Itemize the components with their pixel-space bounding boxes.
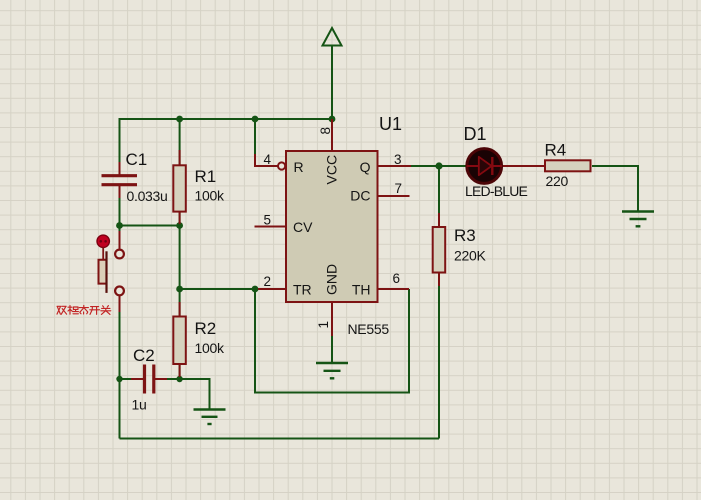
- svg-text:R1: R1: [195, 167, 217, 186]
- svg-text:R3: R3: [454, 226, 476, 245]
- svg-text:C2: C2: [133, 346, 155, 365]
- svg-text:TR: TR: [293, 282, 312, 298]
- svg-text:8: 8: [318, 127, 333, 135]
- svg-text:5: 5: [264, 213, 272, 228]
- svg-text:100k: 100k: [195, 188, 225, 204]
- svg-text:0.033u: 0.033u: [127, 188, 168, 204]
- svg-text:R4: R4: [545, 141, 567, 160]
- svg-text:7: 7: [395, 181, 403, 196]
- svg-text:R2: R2: [195, 319, 217, 338]
- svg-text:220K: 220K: [454, 248, 486, 264]
- svg-text:U1: U1: [379, 114, 402, 134]
- svg-text:4: 4: [264, 152, 272, 167]
- svg-text:C1: C1: [126, 150, 148, 169]
- svg-text:6: 6: [393, 271, 401, 286]
- svg-text:LED-BLUE: LED-BLUE: [465, 183, 528, 199]
- svg-text:GND: GND: [324, 264, 340, 295]
- svg-text:1: 1: [316, 321, 331, 329]
- svg-text:2: 2: [264, 274, 272, 289]
- svg-text:NE555: NE555: [348, 321, 390, 337]
- svg-text:R: R: [294, 159, 304, 175]
- svg-text:1u: 1u: [132, 397, 147, 413]
- svg-text:DC: DC: [350, 188, 370, 204]
- svg-text:VCC: VCC: [324, 155, 340, 185]
- svg-text:CV: CV: [293, 219, 313, 235]
- svg-text:D1: D1: [464, 124, 487, 144]
- svg-text:3: 3: [394, 152, 402, 167]
- svg-text:100k: 100k: [195, 340, 225, 356]
- svg-text:220: 220: [546, 173, 569, 189]
- svg-text:TH: TH: [352, 282, 371, 298]
- svg-text:Q: Q: [360, 159, 371, 175]
